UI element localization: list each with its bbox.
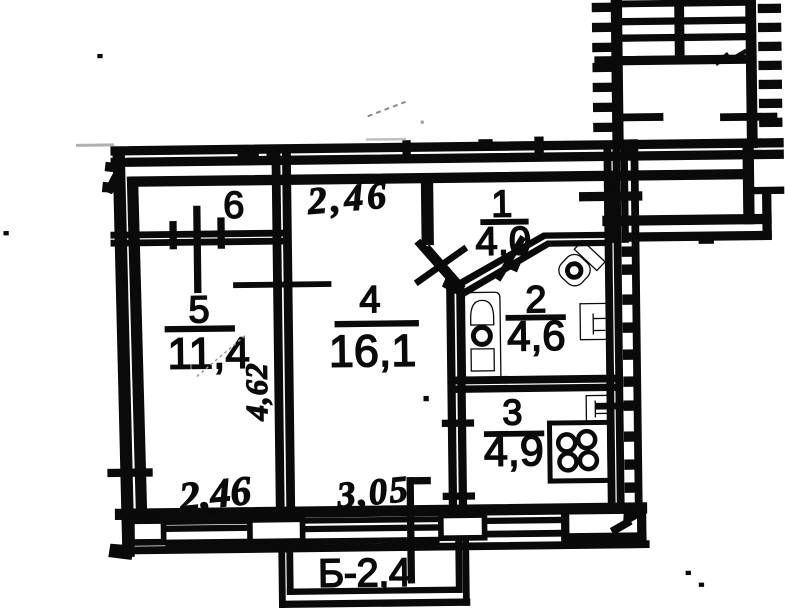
window pier P3 <box>439 513 487 541</box>
stair treads right flight <box>683 0 746 6</box>
kitchen window frame <box>561 507 568 539</box>
east wall hatch blobs <box>622 247 633 256</box>
svg-text:4,62: 4,62 <box>239 362 275 422</box>
wall between room5 and room4 line b <box>283 145 295 511</box>
balcony left wall inner <box>287 549 293 594</box>
blob on band at x537 <box>535 137 543 156</box>
svg-text:6: 6 <box>223 185 245 227</box>
dimension dash near 3,05 <box>407 478 430 484</box>
blob bottom-left corner <box>109 544 133 559</box>
wall bathroom diagonal inner <box>462 240 608 295</box>
door blob bathroom <box>505 260 519 271</box>
svg-text:4,9: 4,9 <box>484 427 544 476</box>
wall tick on band at x406 <box>403 141 410 161</box>
balcony right wall inner <box>456 541 462 592</box>
wall left inner <box>127 177 146 513</box>
wall diagonal room4 corner line b <box>424 245 465 290</box>
kitchen sink <box>586 395 613 421</box>
stair landing edge <box>595 55 750 65</box>
wall east outer line b <box>631 140 642 509</box>
right wall solid segment upper <box>604 174 617 242</box>
wall east outer line a <box>621 147 628 242</box>
window pier P1 <box>130 519 166 545</box>
stair mid landing line right <box>721 113 777 120</box>
stairwell bottom wall line B1 <box>603 214 771 225</box>
stair mid landing line left <box>618 114 663 121</box>
dimension line crossing wall56 <box>234 282 331 288</box>
wall bathroom-kitchen left line b <box>457 287 467 509</box>
wall top inner line T3 <box>129 170 747 187</box>
wall diagonal room4 corner line a <box>415 239 458 287</box>
svg-text:11,4: 11,4 <box>167 329 250 379</box>
faint scan dot <box>421 121 424 124</box>
stair treads left flight <box>621 1 675 7</box>
svg-text:4,6: 4,6 <box>507 312 566 360</box>
wall room6 bottom line a <box>111 230 290 238</box>
stairwell lower landing door line L4 <box>580 192 642 201</box>
door X mark bathroom stroke <box>495 236 526 281</box>
faint gray dashes above band <box>366 138 406 141</box>
wall hallway left vertical <box>421 177 433 245</box>
window glazing room4 balcony <box>301 517 439 523</box>
balcony right wall outer <box>463 541 469 605</box>
wall bathroom diagonal outer <box>456 232 608 287</box>
tick crossing kitchen left wall lower <box>443 493 474 499</box>
wall bathroom bottom line a <box>451 375 621 384</box>
door junction blob at bathtub corner <box>443 279 460 293</box>
speck dot room4 <box>424 397 428 401</box>
tick right of stairwell wall <box>754 187 784 193</box>
tick on room6 wall x222 <box>218 218 224 248</box>
toilet <box>554 241 605 292</box>
faint gray segment left of corner <box>76 143 114 146</box>
washbasin bathroom <box>580 303 609 339</box>
room 2 fraction line <box>506 315 565 320</box>
blob on band at x245 <box>238 148 258 161</box>
room 5 fraction line <box>165 326 234 332</box>
speck dash top right 2 <box>733 50 746 60</box>
wall bathroom-kitchen left line a <box>447 287 457 509</box>
wall tick on band above wall56 <box>267 147 277 161</box>
faint scan dash top center <box>368 102 406 116</box>
stairwell bottom wall line B2 <box>623 231 771 241</box>
stove <box>549 422 610 481</box>
wall right (apartment east) line a <box>604 149 615 507</box>
stairwell right wall lower <box>743 146 754 224</box>
stairwell left wall <box>611 0 623 149</box>
speck dots bottom right <box>686 571 690 574</box>
svg-text:4: 4 <box>359 279 381 321</box>
svg-text:16,1: 16,1 <box>328 325 416 377</box>
stairwell bottom wall right connector <box>763 192 772 238</box>
speck dash top right 1 <box>715 53 729 65</box>
balcony left wall outer <box>279 549 285 607</box>
svg-text:3,05: 3,05 <box>334 469 411 517</box>
window band top bar <box>115 503 646 519</box>
wall right (apartment east) line b <box>613 149 624 507</box>
window glazing kitchen left <box>487 517 562 523</box>
window band bottom line <box>116 541 649 554</box>
svg-text:Б-2,4: Б-2,4 <box>318 551 411 596</box>
svg-text:2,46: 2,46 <box>305 174 392 223</box>
kitchen sink faucet line through wall <box>596 403 627 409</box>
wall between room5 and room4 line a <box>272 145 284 511</box>
corner scribble top-left <box>105 162 121 172</box>
svg-text:2,46: 2,46 <box>176 467 253 520</box>
stairwell right wall outer ticks <box>758 4 780 12</box>
room 3 fraction line <box>485 431 544 436</box>
svg-text:4,0: 4,0 <box>475 219 531 264</box>
wall bathroom bottom line b <box>451 384 621 392</box>
dimension tick crossing left wall at y469 <box>108 469 152 477</box>
window pier P2 <box>248 517 305 545</box>
bathtub <box>464 292 501 383</box>
tick crossing kitchen left wall upper <box>442 420 473 426</box>
dimension extension stroke through balcony window <box>407 478 414 583</box>
kitchen window arrow <box>611 518 632 534</box>
room 1 fraction line <box>481 219 528 224</box>
speck dot top-left <box>98 55 102 58</box>
small tick below stairwell bottom wall <box>699 236 713 243</box>
wall top outer line T2 <box>111 150 783 166</box>
wall room6 bottom line b <box>111 238 290 246</box>
wall top outer line T1 <box>111 139 783 155</box>
east wall top merge <box>621 140 637 155</box>
balcony bottom outer <box>280 599 470 607</box>
room 4 fraction line <box>335 321 418 327</box>
stair divider line a <box>675 0 684 60</box>
blob on band at x487 <box>479 140 492 149</box>
wall left outer <box>113 149 134 556</box>
speck dot left margin <box>4 232 8 235</box>
tick stroke x198 through room6 wall <box>194 206 201 292</box>
stairwell right wall upper <box>746 0 757 148</box>
stairwell left wall outer ticks <box>592 3 612 11</box>
balcony bottom inner <box>287 587 461 594</box>
tick on room6 wall x174 <box>170 222 176 249</box>
faint diagonal in 11,4 <box>196 334 248 377</box>
svg-text:5: 5 <box>188 289 210 331</box>
window glazing room5 <box>166 519 250 525</box>
door X mark room4 stroke <box>414 246 467 286</box>
